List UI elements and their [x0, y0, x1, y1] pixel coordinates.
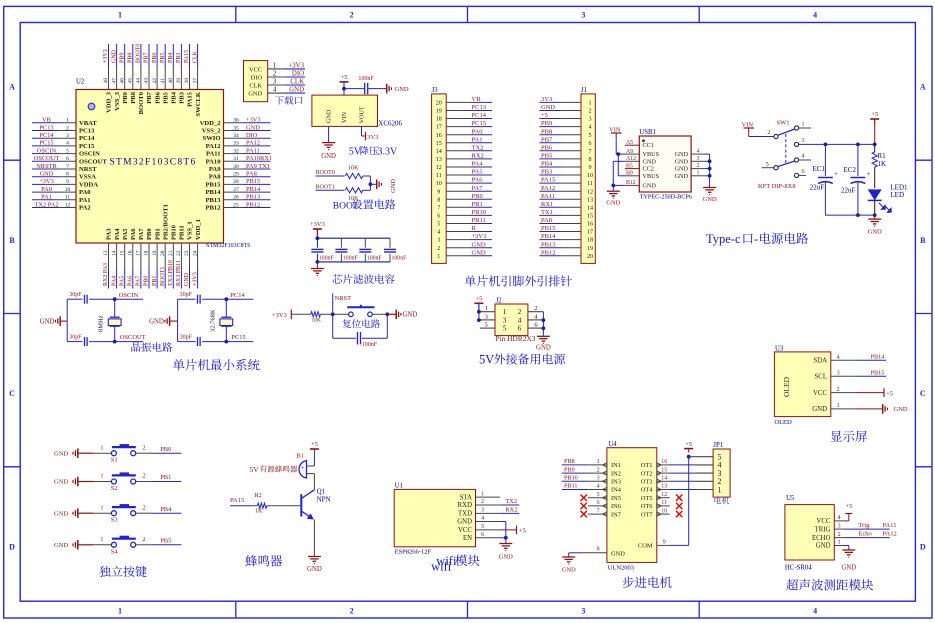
gnd port OLED [856, 404, 908, 414]
wire junction to gnd [387, 313, 395, 315]
wire +5 rail J2 [477, 303, 481, 322]
resistor 10K BOOT0 [345, 164, 363, 178]
svg-text:+5: +5 [871, 111, 878, 118]
wire +5 to VIN [343, 82, 345, 95]
svg-text:8: 8 [437, 197, 440, 203]
diode LED1 [868, 184, 908, 216]
svg-text:ESP8266-12F: ESP8266-12F [395, 549, 432, 556]
svg-text:VBUS: VBUS [643, 151, 660, 158]
svg-text:4: 4 [518, 316, 522, 324]
title BOOT config circuit [333, 199, 396, 211]
gnd port button S3 [54, 508, 93, 518]
wire +5 to buzzer [313, 452, 315, 466]
svg-text:VCC: VCC [249, 66, 262, 73]
svg-text:100nF: 100nF [343, 256, 359, 262]
J1 pin 20 net PB12 [539, 249, 593, 259]
svg-text:VBUS: VBUS [643, 173, 660, 180]
U3 pin 3 SCL [815, 371, 856, 381]
U3 pin 1 GND [812, 403, 856, 413]
svg-text:4: 4 [534, 313, 538, 320]
svg-text:PA11: PA11 [883, 522, 897, 529]
wire VIN to VBUS pins [616, 139, 625, 176]
svg-text:7: 7 [437, 205, 440, 211]
svg-text:22uF: 22uF [841, 187, 856, 195]
svg-text:U5: U5 [786, 495, 795, 502]
svg-text:PB10: PB10 [564, 475, 578, 482]
wire gnd to S2 [93, 481, 111, 483]
svg-text:GND: GND [541, 104, 555, 111]
svg-text:8: 8 [66, 172, 69, 178]
svg-text:IN2: IN2 [611, 470, 621, 477]
U1 pin 2 RXD [458, 499, 500, 509]
power VIN port SW1 [742, 122, 755, 137]
J3 pin 2 net GND [437, 241, 492, 252]
svg-text:GND: GND [643, 182, 657, 189]
svg-text:35: 35 [233, 125, 239, 131]
svg-text:GND: GND [868, 229, 882, 236]
svg-text:7: 7 [66, 164, 69, 170]
U5 pin 1 GND [816, 540, 844, 550]
U4 pin 11 OT6 [641, 500, 670, 510]
svg-text:19: 19 [152, 250, 158, 256]
U2 pin 47 VSS_3 wire/net GND [111, 44, 121, 111]
svg-text:32: 32 [233, 148, 239, 154]
svg-text:9: 9 [437, 189, 440, 195]
svg-text:PA6: PA6 [128, 276, 134, 286]
U4 pin 4 IN4 [588, 484, 622, 494]
svg-text:VDD_2: VDD_2 [200, 120, 222, 127]
U4 pin 14 OT3 [641, 476, 670, 486]
U2 pin 46 PB9 wire/net PB9 [119, 44, 128, 104]
wire to gnd [370, 183, 376, 185]
svg-text:2: 2 [350, 606, 354, 615]
svg-text:2: 2 [66, 125, 69, 131]
driver U4 ULN2003 body [607, 441, 657, 562]
svg-text:B9: B9 [626, 171, 633, 177]
svg-text:PA15: PA15 [184, 50, 190, 63]
svg-text:10: 10 [436, 181, 442, 187]
svg-text:OLED: OLED [774, 419, 792, 426]
svg-text:4: 4 [588, 125, 591, 131]
title independent buttons [99, 566, 146, 577]
svg-text:B: B [9, 236, 15, 245]
wire PB11 to IN4 [562, 483, 588, 490]
connector USB1 TYPEC body [639, 129, 691, 192]
svg-text:PA7: PA7 [472, 185, 484, 192]
svg-text:PC13: PC13 [472, 104, 486, 111]
U2 pin 29 PA8 wire/net PA8 [209, 171, 271, 181]
P1 pin 4 net GND [268, 87, 305, 94]
svg-text:PB8: PB8 [541, 128, 552, 135]
svg-text:B5: B5 [626, 163, 633, 169]
wire gnd to S3 [93, 512, 111, 514]
J1 pin 4 net PB9 [539, 120, 591, 131]
svg-text:PB15: PB15 [541, 225, 555, 232]
svg-text:3: 3 [588, 117, 591, 123]
label motor [715, 497, 730, 504]
USB1 pin A5 CC1 [625, 140, 654, 149]
crystal 8MHz [98, 299, 121, 341]
mcu U2 STM32F103C8T6 body [76, 90, 224, 244]
svg-text:PC15: PC15 [231, 334, 245, 341]
U2 pin 40 PB4 wire/net PB4 [168, 44, 178, 104]
svg-text:VB: VB [42, 117, 51, 124]
svg-text:41: 41 [160, 78, 166, 84]
svg-text:OSCOUT: OSCOUT [79, 158, 107, 165]
U2 pin 15 PA5 wire/net PA5 [119, 228, 128, 289]
svg-text:NRSTR: NRSTR [36, 163, 57, 170]
filter cap bus bottom wire [317, 261, 390, 263]
svg-text:4: 4 [66, 141, 69, 147]
svg-text:RX1: RX1 [541, 201, 553, 208]
no-connect X IN5 [581, 495, 587, 501]
U4 pin 3 IN3 [588, 476, 621, 486]
svg-text:PB4: PB4 [160, 506, 172, 513]
svg-text:PB3: PB3 [541, 169, 552, 176]
svg-text:BOOT0: BOOT0 [316, 170, 335, 176]
svg-text:+5: +5 [886, 390, 893, 397]
svg-text:PA15: PA15 [230, 497, 244, 504]
svg-text:3: 3 [597, 476, 600, 482]
svg-text:4: 4 [813, 11, 817, 20]
svg-text:12: 12 [436, 165, 442, 171]
push button reset S5 [347, 305, 374, 317]
filter cap bus top wire [317, 237, 390, 239]
svg-text:2: 2 [142, 504, 145, 511]
svg-text:OSCOUT: OSCOUT [120, 334, 146, 341]
svg-text:45: 45 [128, 78, 134, 84]
svg-text:6: 6 [66, 156, 69, 162]
svg-text:IN1: IN1 [611, 462, 621, 469]
U2 pin 42 PB6 wire/net PB6 [152, 44, 162, 104]
U2 pin 21 PB10 wire/net TX3 PB10 [168, 224, 178, 288]
U2 pin 37 SWCLK wire/net CLK [192, 44, 202, 117]
svg-text:PB11: PB11 [472, 217, 486, 224]
svg-text:3: 3 [581, 11, 585, 20]
svg-text:PA15: PA15 [541, 177, 555, 184]
wire GND pin down [328, 126, 330, 142]
svg-text:12: 12 [65, 202, 71, 208]
svg-text:IN5: IN5 [611, 495, 621, 502]
svg-text:46: 46 [119, 78, 125, 84]
svg-text:PA9 TX1: PA9 TX1 [246, 163, 270, 170]
module U1 ESP8266 body [394, 483, 475, 547]
svg-text:PB1: PB1 [152, 276, 158, 286]
svg-text:DIO: DIO [292, 70, 304, 77]
svg-text:GND: GND [326, 109, 333, 123]
bottom rail wire [825, 213, 876, 217]
svg-text:GND: GND [606, 200, 620, 207]
svg-text:GND: GND [457, 519, 472, 526]
svg-text:PB13: PB13 [205, 197, 221, 204]
svg-text:100nF: 100nF [319, 256, 335, 262]
svg-text:RX2: RX2 [505, 506, 517, 513]
svg-text:8: 8 [597, 546, 600, 552]
svg-text:KFT DIP-8X8: KFT DIP-8X8 [758, 183, 796, 190]
connector J3 header body [432, 87, 447, 263]
J1 pin 3 net +5 [539, 112, 591, 123]
wire +3V3 to resistor [291, 313, 311, 315]
wire OT3 to motor pin [670, 480, 696, 482]
svg-text:BOOT0: BOOT0 [138, 91, 145, 114]
U2 pin 25 PB12 wire/net PB12 [205, 201, 270, 211]
svg-text:11: 11 [661, 500, 667, 506]
U2 pin 45 PB8 wire/net PB8 [128, 44, 138, 104]
svg-text:VIN: VIN [341, 111, 348, 123]
wire +3V3 down [316, 229, 318, 238]
svg-text:100nF: 100nF [362, 342, 378, 348]
svg-text:3: 3 [697, 156, 700, 162]
svg-text:1: 1 [437, 254, 440, 260]
svg-text:1: 1 [597, 459, 600, 465]
svg-text:24: 24 [192, 250, 198, 256]
svg-text:4: 4 [437, 230, 440, 236]
title MCU pin breakout headers [465, 275, 572, 286]
svg-text:48: 48 [103, 78, 109, 84]
wire to junction [363, 175, 371, 177]
svg-text:PA7: PA7 [136, 276, 142, 286]
svg-text:GND: GND [841, 565, 856, 572]
svg-text:+: + [300, 464, 304, 472]
svg-text:VSS_3: VSS_3 [114, 91, 121, 110]
svg-text:1: 1 [588, 101, 591, 107]
svg-text:44: 44 [136, 78, 142, 84]
capacitor 30pF bottom [178, 335, 227, 347]
U5 pin 2 ECHO [812, 532, 844, 542]
svg-text:Echo: Echo [858, 531, 871, 538]
svg-text:15: 15 [661, 467, 667, 473]
ground usb right [703, 187, 717, 203]
ground under XC6206 [321, 142, 336, 160]
resistor R2 1K [255, 493, 267, 514]
resistor 10K BOOT1 [345, 188, 363, 202]
J2 pin 5 [480, 322, 495, 329]
J3 pin 17 net PC15 [436, 120, 492, 131]
J3 pin 6 net PB10 [437, 209, 492, 220]
capacitor 100nF C4 [384, 238, 407, 262]
wire +5 to JP1 pin5 [689, 456, 696, 458]
title chip filter capacitors [332, 274, 394, 284]
wire to junction [363, 189, 371, 191]
svg-text:GND: GND [675, 173, 689, 180]
U2 pin 9 VDDA wire/net +3V3 [32, 178, 98, 188]
svg-text:3: 3 [581, 606, 585, 615]
svg-text:4: 4 [838, 515, 841, 521]
svg-text:OT5: OT5 [641, 495, 653, 502]
U2 pin 22 PB11 wire/net RX3 PB11 [176, 225, 186, 288]
U1 pin 5 VCC [458, 524, 500, 534]
P1 pin 1 net +3V3 [268, 62, 305, 69]
svg-text:PB14: PB14 [871, 353, 885, 360]
svg-text:GND: GND [54, 542, 69, 549]
svg-text:GND: GND [536, 344, 551, 351]
svg-text:17: 17 [136, 250, 142, 256]
svg-text:4: 4 [597, 484, 600, 490]
svg-text:C: C [920, 389, 926, 398]
U4 pin 16 OT1 [641, 459, 670, 469]
no-connect X OT6 [676, 503, 682, 509]
U2 pin 31 PA10 wire/net PA10RX1 [206, 155, 272, 165]
U2 pin 44 BOOT0 wire/net BOOT0 [136, 44, 146, 115]
J1 pin 14 net RX1 [539, 201, 593, 212]
svg-text:1: 1 [100, 504, 103, 511]
svg-text:8MHz: 8MHz [98, 315, 105, 332]
gnd port button S1 [54, 448, 93, 458]
J3 pin 9 net PA7 [437, 185, 492, 196]
J3 pin 1 net GND [437, 249, 492, 259]
svg-text:2: 2 [518, 308, 522, 316]
svg-text:23: 23 [184, 250, 190, 256]
wire TRIG to PA11 [844, 522, 896, 529]
svg-text:14: 14 [587, 205, 593, 211]
svg-text:26: 26 [233, 195, 239, 201]
svg-text:TX2: TX2 [472, 144, 484, 151]
U2 pin 11 PA1 wire/net PA1 [32, 194, 91, 204]
svg-text:16: 16 [661, 459, 667, 465]
svg-text:J2: J2 [496, 298, 503, 305]
svg-text:27: 27 [233, 187, 239, 193]
push button S3 [100, 504, 145, 524]
svg-text:10: 10 [661, 508, 667, 514]
svg-text:RXD: RXD [458, 502, 472, 509]
crystal 8MHz vertical rail [66, 299, 68, 341]
svg-text:PA6: PA6 [130, 228, 137, 240]
svg-text:1: 1 [118, 11, 122, 20]
USB1 pin 2 GND [675, 163, 705, 173]
capacitor EC2 22uF electrolytic [841, 144, 871, 215]
J3 pin 10 net PA6 [436, 177, 492, 188]
svg-text:10: 10 [587, 173, 593, 179]
svg-text:2: 2 [697, 163, 700, 169]
svg-text:13: 13 [103, 250, 109, 256]
net label BOOT1 [316, 184, 345, 190]
svg-text:43: 43 [144, 78, 150, 84]
svg-text:GND: GND [111, 49, 117, 63]
svg-text:PB15: PB15 [871, 369, 885, 376]
svg-text:GND: GND [812, 406, 827, 413]
U4 pin 6 IN6 [588, 500, 621, 510]
svg-text:GND: GND [54, 450, 69, 457]
svg-text:PB8: PB8 [130, 91, 137, 103]
U2 pin 32 PA11 wire/net PA11 [206, 147, 271, 157]
svg-text:PB6: PB6 [541, 144, 553, 151]
connector J2 body [495, 298, 528, 336]
capacitor 30pF top [67, 292, 115, 304]
svg-text:3: 3 [838, 523, 841, 529]
svg-text:GND: GND [643, 158, 657, 165]
svg-text:+5: +5 [475, 296, 482, 303]
svg-text:PC13: PC13 [79, 128, 95, 135]
svg-text:+5: +5 [846, 503, 853, 510]
svg-text:47: 47 [111, 78, 117, 84]
svg-text:C: C [9, 389, 15, 398]
svg-text:Pin HDR2X3: Pin HDR2X3 [495, 334, 535, 343]
U1 pin 6 EN [463, 532, 500, 542]
svg-text:TX1: TX1 [541, 209, 553, 216]
svg-text:SW1: SW1 [777, 120, 790, 127]
svg-text:1: 1 [718, 485, 722, 494]
J1 pin 19 net PB13 [539, 241, 593, 252]
J2 pin 6 [528, 322, 544, 329]
J3 pin 16 net PA0 [436, 128, 492, 139]
svg-text:+5: +5 [519, 528, 526, 535]
svg-text:BOOT0: BOOT0 [136, 44, 142, 63]
wire to NRST node [320, 313, 349, 315]
svg-text:16: 16 [587, 222, 593, 228]
wire OT4 to motor pin [670, 489, 696, 491]
P1 pin 3 net CLK [268, 78, 305, 85]
J3 pin 8 net PB0 [437, 193, 492, 204]
USB1 pin B12 GND [625, 180, 656, 189]
capacitor 30pF top [178, 292, 227, 304]
svg-text:+3V3: +3V3 [192, 272, 198, 286]
svg-text:2: 2 [767, 130, 770, 136]
wire GND pin [844, 546, 849, 550]
svg-text:OSCIN: OSCIN [79, 151, 100, 158]
svg-text:2: 2 [273, 70, 277, 77]
svg-text:R1: R1 [878, 152, 887, 160]
wire to R2 [251, 505, 257, 507]
svg-text:4: 4 [802, 153, 805, 159]
ground led branch [868, 215, 882, 235]
svg-text:18: 18 [144, 250, 150, 256]
wire SDA to PB14 [856, 353, 886, 360]
svg-text:19: 19 [436, 109, 442, 115]
ground wifi [499, 543, 513, 561]
svg-text:30pF: 30pF [180, 292, 193, 298]
U2 pin 17 PA7 wire/net PA7 [136, 228, 146, 289]
U4 pin 12 OT5 [641, 492, 670, 502]
transistor Q1 NPN [301, 487, 330, 519]
svg-text:1K: 1K [255, 508, 263, 514]
svg-text:VCC: VCC [817, 518, 831, 525]
svg-text:7: 7 [588, 149, 591, 155]
svg-text:S4: S4 [111, 548, 119, 555]
svg-text:PB4: PB4 [168, 53, 174, 63]
svg-text:12: 12 [661, 492, 667, 498]
capacitor 100nF reset [333, 314, 388, 348]
svg-text:PB4: PB4 [171, 91, 178, 103]
svg-text:PA8: PA8 [541, 217, 552, 224]
U2 pin 12 PA2 wire/net TX2 PA2 [32, 201, 91, 211]
title crystal circuit [131, 342, 172, 352]
J3 pin 3 net +3V3 [437, 233, 492, 244]
svg-text:PB2/BOOT1: PB2/BOOT1 [162, 204, 169, 240]
svg-text:1: 1 [66, 118, 69, 124]
svg-text:STM32F103C8T6: STM32F103C8T6 [206, 243, 250, 249]
svg-text:22: 22 [176, 250, 182, 256]
svg-text:HC-SR04: HC-SR04 [785, 565, 812, 572]
title Type-c power circuit [706, 232, 808, 246]
svg-text:RX2: RX2 [472, 153, 484, 160]
svg-text:PA3: PA3 [106, 228, 113, 240]
svg-text:PC14: PC14 [79, 135, 95, 142]
svg-text:PB15: PB15 [205, 181, 221, 188]
svg-text:13: 13 [661, 484, 667, 490]
svg-text:36: 36 [233, 118, 239, 124]
svg-text:B: B [920, 236, 926, 245]
svg-text:BOOT1: BOOT1 [160, 267, 166, 286]
wire VCC to +5 [856, 388, 893, 397]
svg-text:15: 15 [436, 141, 442, 147]
svg-text:+: + [834, 170, 838, 178]
USB1 pin 4 GND [675, 149, 705, 159]
svg-text:JP1: JP1 [713, 442, 723, 449]
svg-text:PB15: PB15 [246, 178, 260, 185]
svg-text:PB4: PB4 [541, 161, 553, 168]
no-connect X IN6 [581, 503, 587, 509]
wire emitter to gnd [313, 520, 315, 557]
